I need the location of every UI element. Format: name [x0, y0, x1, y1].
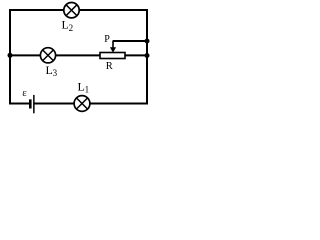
junction node on left rail [8, 53, 13, 58]
lamp L1 [74, 96, 90, 112]
rheostat wiper stem [112, 41, 114, 49]
lamp L3 [40, 48, 55, 63]
wire top rail [9, 9, 148, 11]
svg-text:P: P [104, 34, 110, 45]
rheostat R body [100, 53, 125, 59]
svg-text:2: 2 [69, 23, 74, 33]
svg-text:R: R [106, 61, 113, 72]
junction node wiper-right rail [145, 39, 150, 44]
svg-text:ε: ε [22, 87, 27, 99]
wire bottom rail left of battery [9, 103, 30, 105]
wire bottom rail right of battery [34, 103, 148, 105]
battery cell: long thin positive plate [33, 95, 35, 113]
battery cell: short thick negative plate [29, 99, 32, 108]
wire wiper branch [113, 40, 147, 42]
wire middle branch [10, 54, 147, 56]
svg-text:3: 3 [53, 68, 58, 78]
svg-text:1: 1 [85, 85, 90, 95]
junction node middle-right rail [145, 53, 150, 58]
wire right rail [146, 9, 148, 105]
wire left rail [9, 9, 11, 105]
lamp L2 [64, 3, 79, 18]
rheostat wiper arrowhead [110, 47, 116, 52]
